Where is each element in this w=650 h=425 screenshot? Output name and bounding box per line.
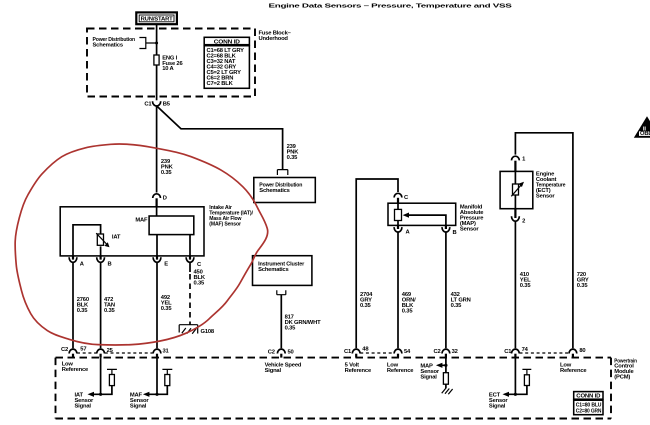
svg-text:74: 74 <box>522 347 529 353</box>
svg-text:C7=2 BLK: C7=2 BLK <box>207 81 234 87</box>
svg-text:C2: C2 <box>434 349 441 355</box>
svg-text:OBD: OBD <box>640 131 650 137</box>
svg-text:Engine Data Sensors – Pressure: Engine Data Sensors – Pressure, Temperat… <box>269 4 513 10</box>
svg-text:MAF: MAF <box>135 217 148 223</box>
svg-text:RUN/START: RUN/START <box>141 17 174 23</box>
svg-text:0.35: 0.35 <box>161 306 173 312</box>
svg-text:G108: G108 <box>201 329 215 335</box>
svg-text:57: 57 <box>80 347 86 353</box>
svg-text:Reference: Reference <box>387 368 414 374</box>
svg-text:B5: B5 <box>163 102 171 108</box>
svg-text:0.35: 0.35 <box>451 303 463 309</box>
svg-text:80: 80 <box>579 348 585 354</box>
svg-text:Underhood: Underhood <box>259 36 289 42</box>
svg-text:25: 25 <box>107 348 114 354</box>
svg-text:0.35: 0.35 <box>194 281 206 287</box>
svg-text:48: 48 <box>362 346 369 352</box>
svg-text:B: B <box>453 230 457 236</box>
svg-text:C2=80 GRN: C2=80 GRN <box>576 408 602 414</box>
svg-text:0.35: 0.35 <box>104 308 116 314</box>
svg-text:10 A: 10 A <box>162 66 174 72</box>
svg-text:Schematics: Schematics <box>93 43 123 49</box>
svg-text:Schematics: Schematics <box>258 267 288 273</box>
svg-text:IAT: IAT <box>112 235 121 241</box>
svg-text:C2: C2 <box>268 349 275 355</box>
svg-text:Signal: Signal <box>489 403 506 409</box>
svg-text:31: 31 <box>163 349 170 355</box>
svg-text:C1: C1 <box>144 102 152 108</box>
svg-text:Signal: Signal <box>130 403 147 409</box>
svg-text:Signal: Signal <box>265 368 282 374</box>
svg-text:Reference: Reference <box>560 368 587 374</box>
svg-text:CONN ID: CONN ID <box>214 39 240 45</box>
svg-text:0.35: 0.35 <box>402 309 414 315</box>
svg-text:Signal: Signal <box>75 403 92 409</box>
svg-text:(MAF) Sensor: (MAF) Sensor <box>209 221 241 227</box>
svg-text:0.35: 0.35 <box>577 283 589 289</box>
svg-text:Sensor: Sensor <box>536 193 555 199</box>
svg-text:0.35: 0.35 <box>520 283 532 289</box>
svg-text:Sensor: Sensor <box>460 227 479 233</box>
svg-text:Schematics: Schematics <box>259 188 289 194</box>
svg-text:C1: C1 <box>344 349 352 355</box>
svg-text:0.35: 0.35 <box>285 325 297 331</box>
svg-text:CONN ID: CONN ID <box>576 394 600 400</box>
svg-text:2: 2 <box>522 218 525 224</box>
svg-text:54: 54 <box>404 349 411 355</box>
svg-text:0.35: 0.35 <box>360 303 372 309</box>
svg-text:32: 32 <box>452 349 458 355</box>
svg-text:0.35: 0.35 <box>287 155 299 161</box>
svg-text:B: B <box>108 262 112 268</box>
svg-text:50: 50 <box>288 349 294 355</box>
svg-text:0.35: 0.35 <box>161 170 173 176</box>
svg-text:D: D <box>163 195 167 201</box>
svg-text:E: E <box>164 262 168 268</box>
svg-text:Reference: Reference <box>62 367 89 373</box>
svg-text:Reference: Reference <box>345 368 372 374</box>
svg-text:0.35: 0.35 <box>77 308 89 314</box>
svg-text:Signal: Signal <box>420 375 437 381</box>
svg-text:(PCM): (PCM) <box>614 375 630 381</box>
svg-text:C1: C1 <box>504 349 512 355</box>
svg-text:C2: C2 <box>61 347 68 353</box>
